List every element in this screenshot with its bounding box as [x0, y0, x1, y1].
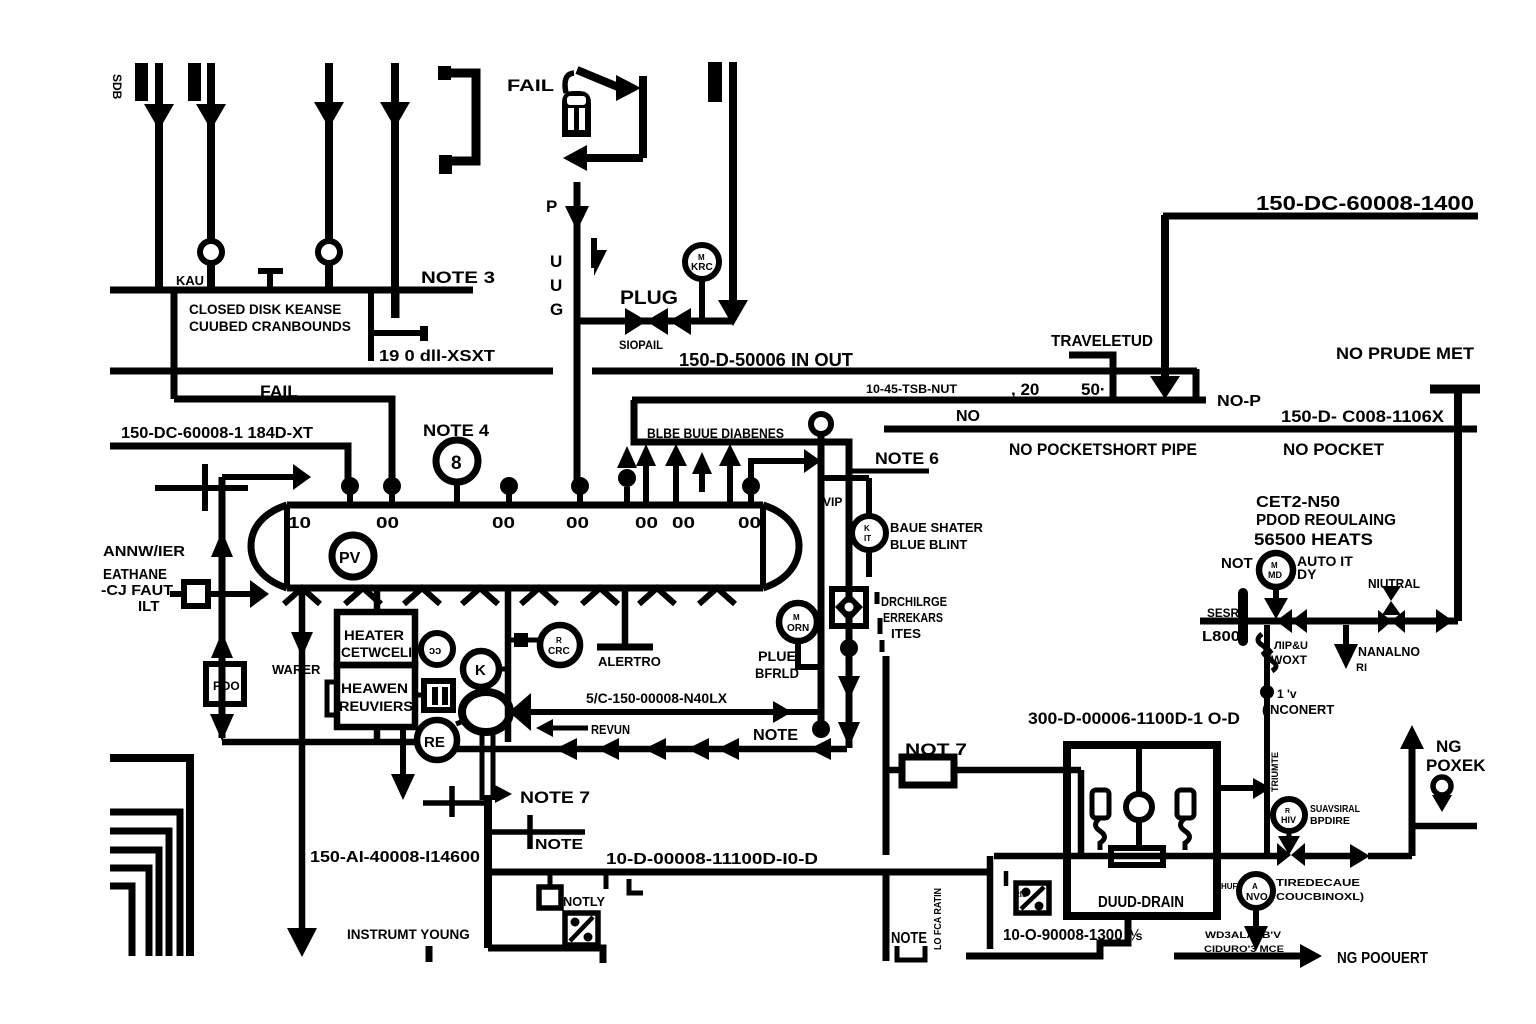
svg-text:SIOPAIL: SIOPAIL [619, 338, 663, 352]
svg-text:10-O-90008-1300 ⅍: 10-O-90008-1300 ⅍ [1003, 927, 1142, 944]
svg-text:SESR: SESR [1207, 606, 1239, 620]
svg-text:U: U [550, 276, 562, 295]
duud out arrow [1217, 785, 1255, 791]
drain line right [1299, 853, 1352, 860]
svg-text:5/C-150-00008-N40LX: 5/C-150-00008-N40LX [586, 691, 727, 706]
wire MD stem [1273, 587, 1279, 600]
duud inner bar [1111, 848, 1163, 865]
svg-text:ALERTRO: ALERTRO [598, 654, 661, 669]
svg-text:M: M [698, 253, 705, 262]
header line 10-D [489, 869, 988, 876]
label REVUN arrow [551, 726, 588, 731]
note7 assembly [423, 800, 490, 806]
svg-text:BAUE SHATER: BAUE SHATER [890, 520, 984, 535]
svg-text:DY: DY [1297, 566, 1317, 582]
wire nozzle E to riser [751, 461, 806, 486]
svg-text:RE: RE [424, 734, 445, 751]
instrument cc [421, 633, 453, 665]
svg-text:, 20: , 20 [1011, 380, 1039, 399]
duud bottom step [966, 916, 1128, 956]
svg-text:ЛIP&U: ЛIP&U [1274, 640, 1308, 652]
wire feed line 2 [207, 63, 215, 241]
off-page T right [1430, 385, 1480, 394]
svg-text:SUAVSIRAL: SUAVSIRAL [1310, 803, 1360, 815]
valve NOTLY [548, 872, 553, 888]
box HEAWEN [337, 665, 415, 727]
nested corner brackets [110, 758, 190, 956]
box DUUD-DRAIN [1067, 745, 1217, 916]
svg-text:R: R [1285, 808, 1290, 815]
vent ring NG [1433, 777, 1451, 795]
svg-text:EATHANE: EATHANE [103, 566, 167, 583]
instrument PV [332, 535, 374, 577]
svg-text:HEATER: HEATER [344, 628, 404, 643]
svg-text:150-DC-60008-1 184D-XT: 150-DC-60008-1 184D-XT [121, 425, 314, 442]
junction dot NOTE [812, 720, 830, 738]
svg-text:REVUN: REVUN [591, 723, 630, 737]
note branch [488, 829, 585, 835]
relief diagonal arrow [577, 70, 618, 87]
ground ALERTRO [622, 588, 629, 644]
svg-text:ILT: ILT [138, 598, 159, 615]
svg-text:00: 00 [672, 515, 695, 532]
relief hook [565, 73, 574, 93]
crossed square 2 [1004, 871, 1009, 886]
wire vessel drop x508 [505, 588, 512, 742]
svg-text:19 0 dll-XSXT: 19 0 dll-XSXT [379, 348, 495, 365]
wire traveletud L [1069, 355, 1113, 400]
vessel V-1 shell [287, 502, 763, 509]
pump ellipse [462, 692, 510, 732]
header line B [632, 397, 1206, 404]
svg-text:CUUBED CRANBOUNDS: CUUBED CRANBOUNDS [189, 319, 351, 334]
wire column 1267 [1264, 625, 1270, 853]
off-page bracket top right [443, 73, 476, 161]
header regulator line [1200, 618, 1458, 625]
svg-text:BFRLD: BFRLD [755, 666, 799, 681]
svg-text:KAU: KAU [176, 273, 204, 288]
box HEATER [337, 612, 415, 665]
svg-text:K: K [864, 524, 870, 533]
header line 1 [110, 287, 473, 294]
wire drain arrow under box [400, 727, 406, 778]
header line DC 1400 [1163, 213, 1478, 220]
instrument RE [417, 720, 457, 760]
svg-text:A: A [1252, 882, 1258, 891]
svg-text:MD: MD [1268, 570, 1282, 580]
nozzle dot B [383, 477, 401, 495]
box POO [206, 664, 244, 704]
svg-text:00: 00 [492, 515, 515, 532]
header line C [884, 426, 1477, 433]
svg-text:NG: NG [1436, 737, 1462, 756]
valve PLUG bowtie [625, 308, 647, 335]
wire 5C line [531, 709, 818, 715]
svg-text:R: R [556, 636, 562, 645]
svg-text:00: 00 [635, 515, 658, 532]
wire riser x222 [219, 477, 226, 738]
svg-text:L800: L800 [1202, 628, 1240, 645]
svg-text:M: M [1271, 561, 1278, 570]
valve on drain line [1277, 843, 1291, 866]
wire jog [821, 475, 869, 481]
pump drop double line [480, 731, 485, 800]
svg-text:RI: RI [1356, 662, 1367, 674]
svg-text:INSTRUMT YOUNG: INSTRUMT YOUNG [347, 927, 470, 942]
svg-text:NOTE: NOTE [891, 930, 927, 947]
svg-text:HEAWEN: HEAWEN [341, 681, 408, 696]
duud spring right [1177, 790, 1194, 818]
svg-text:NVO: NVO [1246, 892, 1268, 903]
svg-text:P: P [546, 197, 557, 216]
wire plug lateral [580, 318, 733, 325]
arrow to corner [1436, 609, 1453, 633]
pipe break bar right [708, 62, 722, 102]
vessel saddle marks [284, 588, 735, 604]
svg-text:56500 HEATS: 56500 HEATS [1254, 531, 1373, 549]
svg-text:HUF: HUF [1221, 882, 1238, 891]
wire x886 drop [883, 656, 890, 855]
svg-text:10-D-00008-11100D-I0-D: 10-D-00008-11100D-I0-D [606, 851, 818, 868]
wire FAIL line [174, 399, 392, 480]
instrument M ORN [779, 603, 817, 641]
svg-text:LO FCA RATIN: LO FCA RATIN [933, 888, 944, 950]
svg-text:WD3ALAI-B'V: WD3ALAI-B'V [1205, 930, 1282, 941]
nozzle dot C [500, 477, 518, 495]
svg-text:150-D- C008-1106X: 150-D- C008-1106X [1281, 408, 1444, 426]
svg-text:CET2-N50: CET2-N50 [1256, 494, 1340, 511]
instrument KRC [685, 245, 719, 279]
instrument KIT [866, 478, 872, 516]
svg-text:ORN: ORN [787, 623, 809, 634]
svg-text:FAIL: FAIL [507, 76, 554, 95]
svg-text:BLUE BLINT: BLUE BLINT [890, 537, 967, 552]
svg-text:NO-P: NO-P [1217, 393, 1261, 410]
instrument MD [1259, 553, 1293, 587]
wire DC-XT line [110, 446, 348, 480]
wire plug riser [574, 182, 581, 486]
svg-text:TIREDECAUE: TIREDECAUE [1276, 877, 1360, 889]
valve circle on line 3 [318, 241, 340, 263]
flow arrows into box [636, 444, 656, 466]
nozzle dot D plug riser [571, 477, 589, 495]
svg-text:CLOSED DISK KEANSE: CLOSED DISK KEANSE [189, 302, 341, 317]
svg-text:POO: POO [213, 679, 240, 693]
crossed square 1 [565, 913, 598, 945]
T vent symbol [258, 268, 283, 274]
valve circle on line 2 [200, 241, 222, 263]
wire left column [171, 290, 178, 399]
step to drain line [987, 856, 994, 949]
svg-text:50·: 50· [1081, 380, 1106, 399]
svg-text:NG POOUERT: NG POOUERT [1337, 950, 1428, 967]
branch NANALNO [1343, 625, 1349, 648]
svg-text:G: G [550, 300, 563, 319]
box BLBE top edge uses header line B [634, 400, 849, 748]
svg-text:1 'v: 1 'v [1277, 687, 1297, 701]
valve neutral [1378, 610, 1392, 633]
relief drum [562, 91, 591, 137]
svg-text:150-D-50006 IN OUT: 150-D-50006 IN OUT [679, 349, 854, 370]
wire feed line 4 [391, 63, 399, 318]
svg-text:NO: NO [956, 408, 980, 425]
ball arrow mark [617, 446, 637, 468]
svg-text:DRCHILRGE: DRCHILRGE [881, 594, 947, 609]
svg-text:KRC: KRC [691, 262, 713, 273]
svg-text:PLUE: PLUE [758, 649, 796, 664]
discharge breaker symbol [832, 589, 866, 626]
junction dot box corner [840, 639, 858, 657]
svg-text:10: 10 [288, 515, 311, 532]
svg-text:IT: IT [864, 534, 871, 543]
svg-text:WOXT: WOXT [1271, 653, 1308, 667]
instrument 8 [436, 440, 478, 482]
svg-text:DUUD-DRAIN: DUUD-DRAIN [1098, 894, 1184, 911]
svg-text:8: 8 [451, 453, 462, 474]
svg-text:ɔɔ: ɔɔ [429, 645, 441, 657]
nozzle dot E [742, 477, 760, 495]
svg-text:NO PRUDE MET: NO PRUDE MET [1336, 344, 1475, 363]
riser NG [1409, 745, 1416, 856]
instrument R HIV [1273, 799, 1305, 831]
svg-text:TRAVELETUD: TRAVELETUD [1051, 333, 1153, 350]
relief loop right [639, 76, 647, 158]
wire drop line right [729, 62, 737, 300]
svg-text:150-DC-60008-1400: 150-DC-60008-1400 [1256, 193, 1474, 215]
svg-text:ITES: ITES [891, 626, 921, 641]
svg-text:WARER: WARER [272, 662, 321, 677]
svg-text:00: 00 [376, 515, 399, 532]
flow arrows on box drop [838, 676, 860, 700]
svg-text:NOTE 7: NOTE 7 [520, 788, 590, 807]
cross tick assembly [155, 485, 248, 491]
svg-text:150-AI-40008-I14600: 150-AI-40008-I14600 [310, 849, 480, 866]
wire feed line 1 [155, 63, 163, 289]
dashed vent line [875, 592, 880, 604]
svg-text:NOTLY: NOTLY [563, 895, 606, 909]
return header line [222, 739, 417, 746]
svg-text:00: 00 [738, 515, 761, 532]
svg-text:(INCONERT: (INCONERT [1262, 702, 1334, 717]
svg-text:NOTE 6: NOTE 6 [875, 449, 939, 468]
svg-text:00: 00 [566, 515, 589, 532]
wire note3 stub [393, 290, 400, 318]
svg-text:PV: PV [339, 550, 361, 567]
wire feed line 3 [325, 63, 333, 241]
flange bar [1238, 593, 1248, 641]
svg-text:NOTE: NOTE [535, 836, 583, 853]
svg-text:NO POCKETSHORT PIPE: NO POCKETSHORT PIPE [1009, 441, 1197, 459]
duud inner stem and circle [1136, 749, 1142, 795]
svg-text:U: U [550, 252, 562, 271]
wire mid column [368, 290, 374, 361]
wire water drop [299, 588, 306, 930]
svg-text:BPDIRE: BPDIRE [1310, 815, 1350, 827]
svg-text:BLBE BUUE DIABENES: BLBE BUUE DIABENES [647, 425, 784, 441]
svg-text:SDB: SDB [110, 74, 124, 100]
svg-text:PLUG: PLUG [620, 288, 678, 309]
wire into duud box [1078, 770, 1085, 856]
svg-text:-CJ FAUT: -CJ FAUT [101, 582, 173, 599]
svg-text:NANALNO: NANALNO [1358, 644, 1420, 659]
svg-text:CETWCELI: CETWCELI [341, 645, 412, 660]
svg-text:POXEK: POXEK [1426, 756, 1486, 775]
svg-text:ERREKARS: ERREKARS [883, 610, 943, 625]
svg-text:NOT: NOT [1221, 555, 1253, 572]
vent ring [811, 414, 831, 434]
svg-text:10-45-TSB-NUT: 10-45-TSB-NUT [866, 382, 958, 396]
svg-text:NO POCKET: NO POCKET [1283, 441, 1384, 459]
svg-text:ANNW/IER: ANNW/IER [103, 543, 185, 560]
svg-text:CRC: CRC [548, 646, 570, 657]
wire pump column corner [488, 948, 603, 963]
svg-text:NOTE: NOTE [753, 727, 798, 744]
instrument R CRC [540, 625, 580, 665]
svg-text:PDOD REOULAING: PDOD REOULAING [1256, 512, 1396, 529]
capacitor box [415, 693, 424, 698]
svg-text:COUCBINOXL): COUCBINOXL) [1276, 891, 1364, 903]
instrument K [463, 651, 499, 687]
svg-text:M: M [793, 613, 800, 622]
nozzle dot A [341, 477, 359, 495]
check arrows [1276, 609, 1292, 633]
svg-text:NOTE 3: NOTE 3 [421, 268, 495, 287]
svg-text:VIP: VIP [823, 495, 842, 509]
svg-text:300-D-00006-1100D-1 O-D: 300-D-00006-1100D-1 O-D [1028, 710, 1240, 728]
svg-text:K: K [475, 662, 486, 679]
svg-text:HIV: HIV [1281, 815, 1296, 825]
wire ring riser [818, 434, 825, 722]
pipe break bar 2 [188, 63, 201, 101]
svg-text:TRIUMTE: TRIUMTE [1270, 752, 1280, 792]
wire drop arrow 1165 [1161, 215, 1169, 378]
header line 2 [110, 368, 553, 375]
arrow stub right [222, 474, 295, 480]
half arrow mark [591, 238, 597, 268]
svg-text:REUVIERS: REUVIERS [339, 699, 413, 714]
duud spring left [1092, 790, 1109, 818]
bottom NG line [1174, 953, 1302, 960]
drain header line [994, 853, 1282, 860]
pipe break bar 1 [135, 63, 148, 101]
inlet valve square [170, 591, 186, 597]
